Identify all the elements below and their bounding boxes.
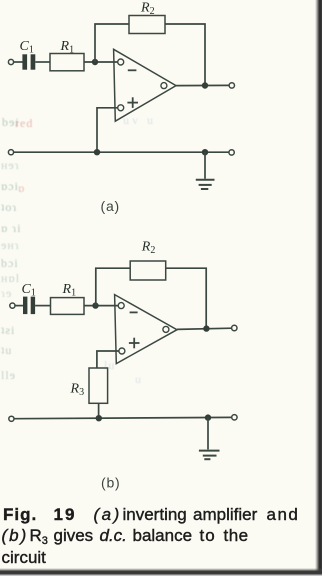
output wire (b): [177, 328, 232, 329]
left rail terminal (b): [9, 416, 14, 421]
wire C1 to R1 (b): [35, 305, 50, 307]
ground symbol (b): [199, 451, 220, 460]
svg-text:R2: R2: [140, 1, 155, 18]
non-inverting input circle (a): [118, 105, 124, 111]
svg-text:R3: R3: [70, 382, 85, 399]
non-inverting input circle (b): [119, 348, 125, 354]
inverting input circle (b): [118, 303, 124, 309]
capacitor C1 (b): [23, 297, 35, 315]
feedback wire up from junction (b): [96, 268, 130, 305]
resistor R3 (b): [89, 368, 108, 403]
ground lead (b): [207, 418, 209, 450]
output circle (a): [161, 83, 167, 89]
wire C1 to R1 (a): [35, 61, 50, 63]
bottom rail (a): [14, 151, 229, 153]
svg-text:(b): (b): [101, 475, 121, 491]
non-inverting input wire to R3 (b): [97, 351, 119, 368]
input terminal (b): [10, 303, 15, 308]
feedback wire R2 to output node (a): [165, 24, 205, 85]
wire input to C1 (b): [15, 305, 23, 307]
feedback wire up from junction (a): [95, 24, 129, 62]
wire R1 to inverting input (b): [84, 305, 118, 307]
right rail terminal (b): [232, 415, 237, 420]
bleed-through text left margin: [2, 115, 20, 130]
resistor R2 (b): [130, 261, 166, 280]
junction node at R1 output (b): [92, 302, 98, 308]
svg-text:R1: R1: [60, 39, 75, 56]
inverting input circle (a): [118, 59, 124, 65]
wire input to C1 (a): [14, 61, 23, 63]
faint ghost marks: [123, 113, 156, 128]
svg-text:R2: R2: [141, 240, 156, 257]
output terminal (a): [229, 83, 234, 88]
right page-edge shadow: [315, 0, 322, 576]
resistor R2 (a): [129, 16, 165, 34]
output wire (a): [176, 84, 229, 86]
ground lead (a): [204, 152, 206, 179]
rail junction at R3 (b): [96, 415, 102, 421]
capacitor C1 (a): [22, 54, 35, 69]
resistor R1 (a): [50, 54, 84, 71]
svg-text:C1: C1: [20, 39, 34, 56]
ground symbol (a): [196, 180, 215, 189]
minus sign (b): [130, 311, 138, 313]
output circle (b): [163, 326, 169, 332]
bottom page-edge shadow: [0, 568, 322, 576]
output junction node (b): [203, 325, 209, 331]
caption line 1: [0, 505, 322, 507]
output junction node (a): [202, 82, 208, 88]
rail junction at ground (a): [202, 149, 208, 155]
minus sign (a): [128, 69, 137, 71]
wire R3 to rail (b): [98, 403, 100, 418]
input terminal (a): [8, 59, 13, 64]
resistor R1 (b): [51, 298, 85, 315]
bottom rail (b): [14, 417, 232, 418]
non-inverting input wire to rail (a): [97, 108, 118, 152]
op-amp U1 triangle (a): [114, 49, 176, 121]
rail junction at plus branch (a): [94, 149, 100, 155]
svg-text:C1: C1: [22, 282, 36, 299]
output terminal (b): [232, 325, 237, 330]
plus sign (b): [129, 338, 140, 349]
op-amp U2 triangle (b): [115, 295, 177, 364]
caption line 3: [2, 549, 46, 566]
left rail terminal (a): [8, 150, 13, 155]
plus sign (a): [127, 97, 138, 108]
caption line 2: [0, 526, 322, 528]
svg-text:(a): (a): [101, 198, 121, 214]
feedback wire R2 to output node (b): [166, 268, 207, 328]
rail junction at ground (b): [205, 414, 211, 420]
wire R1 to inverting input (a): [84, 61, 118, 63]
junction node at R1 output (a): [92, 59, 98, 65]
right rail terminal (a): [229, 150, 234, 155]
svg-text:R1: R1: [62, 282, 77, 299]
